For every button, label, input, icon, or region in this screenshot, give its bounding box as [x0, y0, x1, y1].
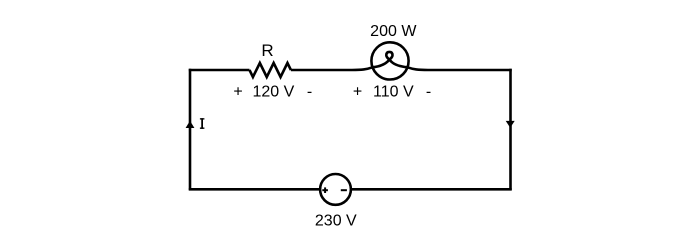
- wire top right segment: [408, 67, 512, 70]
- wire top left segment: [189, 69, 250, 72]
- voltage source V1 circle: [320, 174, 351, 205]
- wire right vertical: [509, 69, 512, 190]
- svg-text:110 V: 110 V: [373, 83, 414, 100]
- svg-text:R: R: [261, 41, 273, 60]
- source polarity plus: [322, 187, 328, 193]
- svg-text:230 V: 230 V: [315, 212, 357, 229]
- label I (current): [200, 118, 205, 129]
- svg-text:-: -: [426, 83, 431, 100]
- resistor R: [250, 63, 291, 77]
- svg-text:+: +: [353, 83, 362, 100]
- current arrow up (left wire): [186, 121, 195, 128]
- wire bottom: [189, 188, 512, 191]
- source polarity minus: [341, 189, 347, 191]
- svg-text:200 W: 200 W: [370, 23, 417, 40]
- wire top middle segment: [291, 67, 373, 70]
- svg-text:-: -: [307, 83, 312, 100]
- wire left vertical: [189, 69, 192, 190]
- lamp filament loop: [373, 52, 408, 67]
- lamp bulb circle (200 W): [371, 42, 408, 79]
- current arrow down (right wire): [506, 121, 515, 128]
- svg-text:120 V: 120 V: [252, 83, 294, 100]
- svg-text:+: +: [233, 83, 242, 100]
